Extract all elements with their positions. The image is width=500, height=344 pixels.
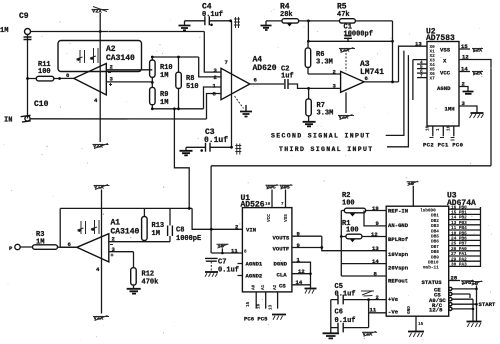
svg-text:R12: R12	[142, 271, 155, 279]
svg-text:GND: GND	[407, 306, 412, 314]
wire AN-GND branch	[364, 211, 386, 226]
U2 bottom pins	[433, 126, 454, 136]
svg-text:1: 1	[436, 128, 441, 131]
svg-text:PC6 PC5: PC6 PC5	[244, 316, 268, 323]
svg-text:1000pE: 1000pE	[176, 235, 201, 243]
resistor R12	[133, 252, 135, 289]
resistor R7	[308, 88, 310, 121]
svg-text:1M: 1M	[152, 230, 160, 238]
svg-text:13: 13	[415, 41, 422, 48]
U2 left pin X7	[417, 77, 427, 79]
svg-text:4: 4	[96, 266, 100, 273]
svg-text:1M: 1M	[0, 27, 8, 35]
svg-text:10Vspn: 10Vspn	[388, 251, 409, 258]
svg-text:P: P	[9, 245, 13, 252]
svg-text:R13: R13	[152, 222, 165, 230]
svg-text:REF-IN: REF-IN	[388, 208, 408, 215]
ground R12	[127, 289, 141, 294]
wire 20Vspn	[341, 263, 386, 265]
svg-text:VIN: VIN	[246, 227, 256, 234]
ground C7	[205, 271, 218, 273]
svg-text:10: 10	[265, 202, 271, 207]
svg-text:CS: CS	[279, 283, 286, 290]
wire REF vertical	[340, 211, 342, 277]
ground control	[467, 321, 482, 323]
svg-text:12/8: 12/8	[429, 307, 443, 314]
wire R6 to A3 pin2	[308, 73, 341, 75]
svg-text:13: 13	[269, 304, 274, 310]
U1 bottom pins	[256, 292, 277, 309]
U2 left pin X4	[417, 63, 427, 65]
svg-text:15: 15	[461, 43, 468, 50]
wire to A4 pin1	[204, 87, 222, 109]
svg-text:A2: A2	[273, 284, 278, 290]
power V1X above A1	[94, 185, 110, 314]
op-amp U A2 box	[58, 41, 142, 72]
IC U3 box	[386, 206, 449, 316]
wire to A3 pin3	[307, 87, 310, 90]
power V2X below A1	[93, 316, 109, 322]
svg-text:1M: 1M	[160, 72, 168, 80]
svg-text:msb-11: msb-11	[423, 266, 439, 271]
svg-text:30 PA3: 30 PA3	[451, 263, 467, 268]
wire to A4 pin2	[199, 57, 221, 77]
svg-text:START: START	[479, 301, 496, 308]
svg-text:11: 11	[370, 307, 377, 314]
svg-text:11: 11	[231, 248, 238, 255]
power V2X below A2	[93, 144, 109, 150]
wire main bus horizontal	[211, 165, 491, 167]
svg-text:X: X	[443, 58, 447, 65]
power V2X bottom	[362, 331, 377, 337]
svg-text:10000pf: 10000pf	[344, 31, 373, 39]
U2 left pin X6	[417, 72, 427, 74]
svg-text:AGND1: AGND1	[246, 261, 263, 268]
svg-text:510: 510	[186, 83, 199, 91]
svg-text:C10: C10	[34, 100, 49, 109]
svg-text:0.1uf: 0.1uf	[218, 267, 239, 275]
wire REFout	[341, 275, 386, 277]
power +5 top U3	[407, 181, 419, 206]
svg-text:20Vspn: 20Vspn	[388, 265, 409, 272]
svg-text:+Ve: +Ve	[388, 296, 399, 303]
svg-text:4: 4	[94, 97, 98, 104]
power VSS top U1	[280, 185, 293, 208]
wire U1 pin 11	[211, 252, 242, 254]
svg-text:1: 1	[213, 83, 217, 90]
svg-text:100: 100	[346, 227, 359, 235]
svg-text:VCC: VCC	[440, 70, 451, 77]
svg-text:12: 12	[371, 231, 378, 238]
capacitor C9 symbol	[24, 37, 32, 40]
svg-text:IN: IN	[4, 117, 12, 125]
U3 right data pin rows	[449, 209, 481, 266]
svg-text:3.3M: 3.3M	[317, 110, 334, 118]
power +5 right	[471, 281, 483, 287]
svg-text:12: 12	[462, 54, 469, 61]
ground CS	[305, 288, 317, 290]
svg-text:-Ve: -Ve	[388, 309, 399, 316]
svg-text:REFout: REFout	[388, 278, 408, 285]
svg-text:AN-GND: AN-GND	[388, 222, 409, 229]
svg-text:CLA: CLA	[277, 272, 288, 279]
capacitor C8	[169, 208, 171, 241]
svg-text:15: 15	[418, 322, 424, 327]
wire to A4 pin8	[207, 94, 222, 120]
capacitor C10 symbol	[21, 115, 32, 122]
U1 pins AGND1 AGND2	[238, 264, 243, 276]
ground for R4	[265, 21, 267, 26]
op-amp A2 triangle	[74, 64, 107, 95]
wire A3 output	[364, 81, 398, 83]
pin 2 A2 wire	[106, 69, 152, 71]
svg-text:3: 3	[214, 67, 218, 74]
wire bus left vertical to U1	[210, 166, 212, 253]
svg-text:7: 7	[420, 74, 423, 79]
wire junction to mid bus	[174, 109, 189, 209]
wire bottom of R network	[152, 108, 203, 110]
svg-text:13: 13	[372, 245, 379, 252]
svg-text:R8: R8	[186, 75, 194, 83]
IC U1 box	[242, 208, 292, 292]
power +5 at U1 pin 11	[217, 244, 229, 254]
svg-text:28k: 28k	[280, 11, 293, 19]
wire rail top of R network	[152, 56, 198, 58]
svg-text:C7: C7	[218, 259, 226, 267]
U2 left pin X3	[413, 60, 427, 100]
svg-text:10: 10	[447, 125, 452, 131]
svg-text:19: 19	[372, 205, 379, 212]
power marker small hatched	[234, 17, 240, 28]
svg-text:AD7583: AD7583	[426, 34, 455, 43]
resistor R6	[307, 41, 309, 74]
svg-text:15: 15	[246, 301, 251, 307]
op-amp A3 triangle	[341, 71, 365, 92]
offset null marks A2	[77, 48, 99, 63]
svg-text:12: 12	[298, 268, 305, 275]
wire A4 output	[250, 83, 284, 85]
svg-text:STATUS: STATUS	[422, 279, 443, 286]
wire C1 rail	[308, 21, 392, 41]
pin 2 A1 wire	[109, 241, 170, 243]
svg-text:470k: 470k	[142, 279, 159, 287]
svg-text:14: 14	[372, 258, 379, 265]
svg-text:16: 16	[426, 125, 431, 131]
wire to A4 pin3	[204, 32, 221, 73]
op-amp A1 triangle	[77, 234, 109, 262]
svg-text:A1: A1	[111, 219, 121, 228]
svg-text:1M: 1M	[160, 99, 168, 107]
power marker small hatched right of C3	[235, 144, 241, 155]
ground R7	[303, 122, 316, 127]
wire A1 feedback rail	[60, 207, 192, 209]
svg-text:R10: R10	[160, 64, 173, 72]
resistor R9	[151, 82, 153, 108]
IC U2 box	[427, 42, 459, 127]
power VCC top U1	[265, 185, 279, 208]
wire top input	[31, 31, 205, 33]
svg-text:3.3M: 3.3M	[316, 59, 333, 67]
svg-text:AGND: AGND	[437, 85, 451, 92]
svg-text:1MH: 1MH	[445, 106, 455, 113]
svg-text:R9: R9	[160, 91, 168, 99]
svg-text:7: 7	[281, 202, 284, 207]
svg-text:100: 100	[38, 68, 51, 76]
svg-text:X7: X7	[430, 77, 436, 82]
offset null marks A1	[78, 220, 100, 234]
svg-text:THIRD SIGNAL INPUT: THIRD SIGNAL INPUT	[279, 146, 374, 153]
node junction dot	[99, 30, 102, 33]
ground C3	[185, 147, 187, 150]
resistor R13	[143, 208, 145, 241]
wire input vertical	[27, 35, 29, 119]
svg-text:CA3140: CA3140	[106, 54, 135, 63]
wire control vertical	[470, 286, 477, 322]
svg-text:28: 28	[451, 275, 458, 282]
svg-text:VSS: VSS	[440, 47, 451, 54]
svg-text:7: 7	[225, 59, 228, 66]
svg-text:C9: C9	[19, 12, 29, 21]
resistor R10	[151, 57, 153, 82]
svg-text:8: 8	[244, 250, 247, 255]
pin 3 A1 wire	[109, 251, 134, 253]
svg-text:0.1uf: 0.1uf	[204, 136, 228, 145]
svg-text:AD526: AD526	[241, 201, 265, 210]
pin 6 A1 output wire	[60, 246, 77, 248]
wire -Ve	[369, 300, 387, 328]
svg-text:14: 14	[296, 279, 303, 286]
wire R5 right vertical	[392, 21, 394, 82]
wire IN bottom long	[30, 118, 207, 120]
wire A1 feedback left	[59, 208, 61, 247]
wire data bus vertical	[480, 207, 482, 267]
svg-text:C8: C8	[176, 227, 184, 235]
wire VOUT to U3	[322, 236, 386, 251]
pin 6 A2 output wire	[60, 77, 74, 79]
pin 7 supply line A4	[231, 21, 233, 147]
wire A3 out up to U2	[399, 46, 428, 82]
power V2X top	[92, 7, 109, 143]
resistor R8	[178, 57, 180, 109]
svg-text:DGND: DGND	[274, 261, 288, 268]
ground A4	[235, 96, 244, 109]
pin 4 A3 down	[345, 92, 347, 113]
svg-text:14: 14	[461, 66, 468, 73]
svg-text:BPLRof: BPLRof	[388, 236, 409, 243]
svg-text:100: 100	[342, 200, 355, 208]
power V2X mid	[339, 48, 355, 72]
pin 3 A2 wire	[106, 81, 152, 83]
svg-text:16: 16	[257, 303, 262, 309]
svg-text:VOUTS: VOUTS	[273, 235, 290, 242]
wire VIN from rail	[192, 208, 242, 229]
power V2X below A3	[338, 115, 354, 121]
ground U1 bottom	[272, 314, 286, 316]
svg-text:VCC: VCC	[267, 214, 272, 222]
U2 left pin X0	[399, 45, 428, 47]
svg-text:VOUTF: VOUTF	[273, 246, 290, 253]
op-amp A4 triangle	[221, 68, 250, 99]
U2 left pin X5	[417, 68, 427, 70]
svg-text:C6: C6	[335, 309, 343, 317]
capacitor C7	[205, 258, 218, 261]
svg-text:AD620: AD620	[253, 64, 277, 73]
svg-text:A0: A0	[252, 284, 257, 290]
wire +Ve	[331, 299, 386, 301]
ground for C4	[184, 21, 186, 26]
svg-text:VSS: VSS	[284, 214, 289, 222]
svg-text:PC2 PC1 PC0: PC2 PC1 PC0	[423, 142, 464, 149]
ground C5 C6	[323, 333, 340, 338]
svg-text:A2: A2	[106, 45, 116, 54]
svg-text:A1: A1	[261, 284, 266, 290]
svg-text:SECOND SIGNAL INPUT: SECOND SIGNAL INPUT	[271, 133, 371, 140]
svg-text:6: 6	[254, 77, 258, 84]
svg-text:AGND2: AGND2	[246, 273, 263, 280]
svg-text:47k: 47k	[337, 11, 350, 19]
wire C5 C6 left vertical	[330, 300, 332, 333]
